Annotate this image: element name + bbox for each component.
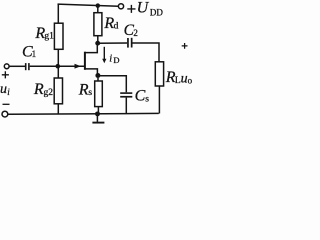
svg-text:U: U — [137, 0, 150, 17]
svg-text:D: D — [113, 55, 119, 65]
svg-text:2: 2 — [133, 28, 138, 38]
svg-text:1: 1 — [32, 49, 36, 59]
svg-text:C: C — [135, 87, 146, 104]
svg-text:o: o — [188, 76, 193, 86]
svg-text:DD: DD — [150, 8, 163, 18]
svg-text:g2: g2 — [44, 88, 54, 98]
svg-text:i: i — [109, 53, 112, 64]
svg-text:u: u — [181, 71, 188, 86]
svg-text:u: u — [0, 82, 7, 97]
svg-text:d: d — [114, 22, 119, 32]
svg-text:g1: g1 — [44, 32, 54, 42]
svg-text:R: R — [78, 81, 89, 98]
svg-text:s: s — [88, 88, 92, 98]
svg-text:R: R — [33, 81, 44, 98]
svg-text:s: s — [145, 95, 149, 105]
